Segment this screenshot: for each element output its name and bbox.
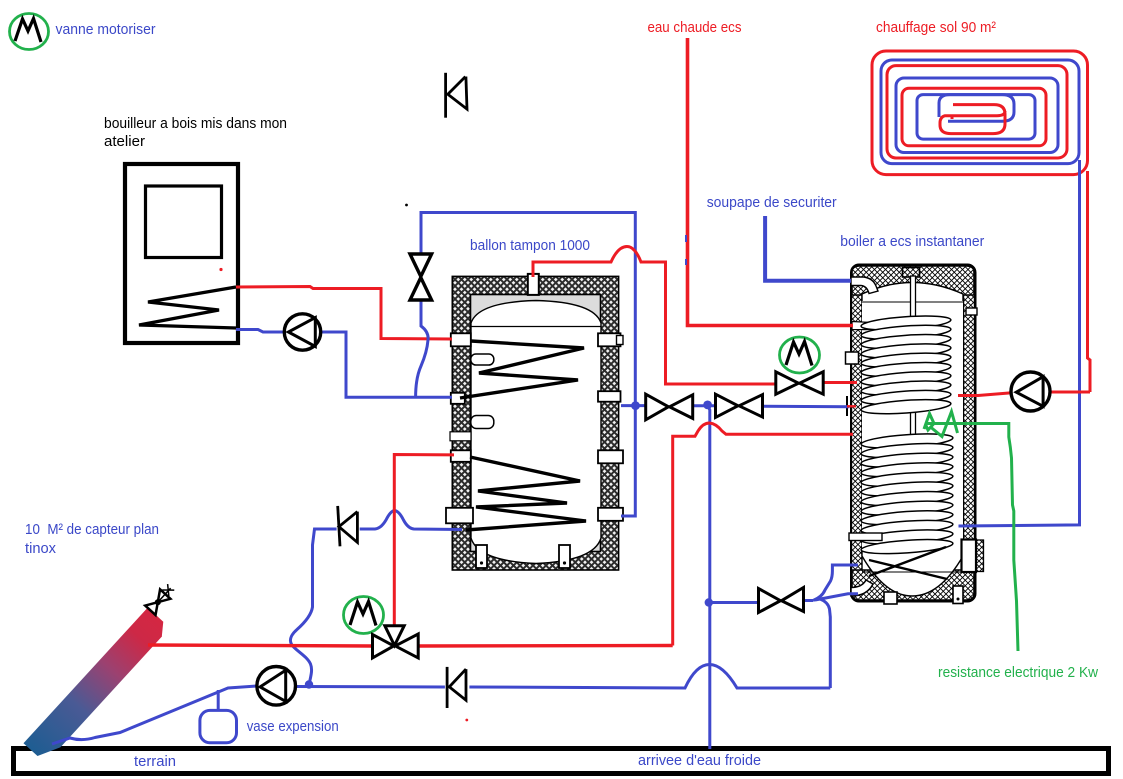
tank T1 weld line (471, 326, 601, 328)
wire: blue valve K4 to pump P2 (296, 685, 445, 689)
tank T1 leg left (476, 545, 487, 568)
tank T1 inner cavity (471, 295, 601, 552)
valve V6 bowtie (red charge line) (776, 372, 823, 394)
tank T1 stub left bottom flange (446, 508, 473, 524)
svg-text:chauffage sol 90 m²: chauffage sol 90 m² (876, 19, 996, 36)
junction J1 dot (631, 401, 640, 410)
tank T2 outer shell (851, 265, 976, 602)
floor loop blue ring 3 (917, 95, 1035, 140)
tank T1 lower coil zigzag (466, 457, 586, 530)
tank T1 stub left hot-in (wood boiler) (451, 333, 471, 346)
tank T2 small stub left (846, 352, 859, 364)
wire: blue vase expansion stub (217, 690, 220, 711)
WOOD BOILER (125, 164, 238, 343)
floor loop blue ring 1 (881, 60, 1079, 164)
wire: red pump P3 to floor riser (1049, 391, 1090, 394)
wire: red eau chaude ecs drop (688, 38, 854, 326)
tank T2 top dome (862, 283, 963, 303)
wire: blue J3 to valve V5 (710, 601, 759, 604)
FLOOR HEATING (872, 51, 1090, 526)
wire: red 3way valve top branch to tank1 (394, 455, 454, 627)
tank T2 weld line top (862, 301, 963, 303)
tank T1 sensor pocket upper (471, 354, 494, 365)
floor loop blue inner end (939, 95, 1014, 122)
tank T1 upper coil zigzag (460, 341, 584, 398)
motorized valve legend symbol (10, 14, 49, 50)
ground bar (14, 749, 1109, 774)
wire: red collector supply main (148, 645, 373, 646)
tank T1 insulation frame (452, 276, 618, 570)
valve V-top vertical bowtie (410, 254, 432, 300)
wire: green resistance line (925, 424, 1018, 652)
tank T2 bottom coil zigzag (869, 547, 947, 579)
wire: blue cold water main drop (708, 405, 710, 749)
wire: blue wiggle from J4 up to valve K3 (290, 529, 336, 685)
tank T2 upper coil (861, 314, 952, 417)
tank T1 stub right bottom (598, 508, 623, 521)
wire: blue X junction up to tank2 stub565 (813, 565, 858, 601)
pump P1 (wood boiler) (284, 314, 320, 350)
svg-text:arrivee d'eau froide: arrivee d'eau froide (638, 752, 761, 769)
tank T2 leg left (884, 592, 897, 604)
wire: blue between valves V1 V2 (693, 404, 716, 407)
wire: blue X junction down leg (820, 599, 830, 688)
TANK2 boiler ecs (846, 265, 984, 605)
wire: red riser to tank2 solar coil with bump (673, 423, 853, 646)
valve V2 bowtie (716, 394, 763, 417)
wire: green element scribble (924, 412, 958, 437)
tank T1 stub left solar-in (451, 450, 471, 462)
svg-text:vanne motoriser: vanne motoriser (56, 21, 156, 38)
svg-text:eau chaude ecs: eau chaude ecs (648, 19, 742, 36)
svg-text:terrain: terrain (134, 753, 176, 770)
tank T1 vessel body (471, 301, 601, 564)
stray dot artifact top (405, 204, 408, 207)
wire: blue X junction to tank2 bottom entry (815, 594, 858, 600)
svg-text:boiler a ecs instantaner: boiler a ecs instantaner (840, 233, 984, 250)
tank T2 body interior (862, 301, 963, 549)
wire: blue tick artifacts on red drop (685, 235, 687, 265)
vase expansion vessel (200, 710, 237, 742)
svg-text:soupape de securiter: soupape de securiter (707, 194, 837, 211)
stray red dot artifact (219, 268, 222, 271)
floor loop blue ring 2 (896, 78, 1058, 153)
wire: red valve V6 to tank2 (822, 381, 857, 384)
wire: blue down from J1 to tank1 lower-right stub (621, 406, 635, 516)
wire: red riser floor-heating supply (1088, 171, 1091, 392)
tank T2 lower coil (861, 432, 954, 557)
svg-text:vase expension: vase expension (247, 718, 339, 735)
wire: blue bottom horizontal to valve K4 (469, 665, 830, 689)
svg-text:ballon tampon 1000: ballon tampon 1000 (470, 237, 590, 254)
check valve K3 (solar return) (338, 506, 358, 546)
svg-text:tinox: tinox (25, 540, 56, 557)
tank T1 leg right (559, 545, 570, 568)
wire: blue soupape de securiter (765, 216, 851, 281)
wire: blue wood-boiler return (boiler to pump P1) (236, 330, 285, 333)
tank T2 bottom dome (862, 548, 963, 596)
wire: red tick at tank2 blue entry (847, 405, 856, 407)
svg-text:bouilleur a bois mis dans mon: bouilleur a bois mis dans mon (104, 115, 287, 132)
solar collector panel (23, 608, 169, 764)
pump P2 (solar) (257, 667, 296, 706)
wood boiler body (125, 164, 238, 343)
wire: blue pump P1 outlet to tank1 mid stub (320, 332, 452, 397)
wire: red wood-boiler supply to tank1 (236, 287, 452, 340)
floor loop red ring 3 (902, 88, 1046, 146)
tank T1 small notch left (450, 432, 471, 441)
wire: red tank2 to pump P3 (958, 393, 1012, 396)
valve V1 bowtie (646, 394, 693, 420)
junction J3 dot (705, 598, 713, 606)
tank T2 bottom-left elbow (851, 580, 873, 596)
tank T1 stub right mid (598, 391, 621, 402)
tank T2 internal pipe (911, 276, 916, 437)
tank T2 small fitting right (966, 308, 977, 315)
svg-text:resistance electrique 2 Kw: resistance electrique 2 Kw (938, 664, 1098, 681)
valve V5 bowtie (cold feed) (759, 588, 804, 613)
tank T1 sensor pocket lower (471, 416, 494, 429)
floor loop red ring 1 (872, 51, 1088, 175)
tank T2 entry tick mark (846, 396, 848, 416)
wire: blue riser to thermic valve (421, 213, 635, 406)
check valve K1 (floating) (446, 73, 467, 118)
tank T1 stub right upper (598, 333, 621, 346)
tank T2 leg right (953, 586, 963, 604)
TERRAIN (14, 749, 1109, 774)
svg-text:10 M² de capteur plan: 10 M² de capteur plan (25, 521, 159, 538)
tank T1 stub left return mid (451, 393, 465, 404)
motorized valve M3 (boiler charge) (780, 337, 820, 373)
floor loop red ring 2 (887, 66, 1067, 158)
svg-text:atelier: atelier (104, 133, 145, 150)
wire: blue tank1 right stub to junction J1 (621, 404, 646, 407)
wire: red 3way valve to riser corner (418, 644, 673, 648)
tank T2 insulation right wall (964, 270, 975, 596)
tank T2 electric element flange (962, 540, 977, 573)
tank T2 inlet elbow top-left (851, 277, 878, 294)
wire: blue valve K3 to tank1 bottom stub with bump (360, 511, 462, 530)
wire: blue valve V5 to X junction (804, 599, 814, 602)
pump P3 (floor heating) (1011, 372, 1050, 411)
junction J4 dot (305, 680, 313, 688)
junction J2 dot (703, 401, 712, 410)
check valve K4 (bottom loop) (447, 667, 466, 708)
wire: blue valve V2 to tank2 left (763, 405, 850, 409)
wire: blue thermic valve down wiggle (416, 300, 429, 397)
tank T1 stub right lower-mid (598, 450, 623, 463)
tank T2 insulation left wall (852, 270, 863, 596)
floor loop red inner end (940, 105, 1005, 134)
wood boiler heat exchanger zigzag (139, 287, 236, 328)
tank T2 insulation bottom cap (852, 570, 974, 600)
wire: blue floor-heating return riser (959, 160, 1080, 526)
collector air-vent valve (145, 583, 176, 615)
tank T2 coil nozzle mid-left (849, 533, 882, 541)
wood boiler door (146, 186, 222, 258)
valve V7 3-way mixing valve (373, 626, 419, 658)
motorized valve M2 (solar 3-way) (344, 597, 384, 634)
COLLECTOR (23, 583, 176, 764)
wire: red tank1 top to boiler-ecs valve branch (533, 247, 777, 385)
wire: blue pump P2 inlet from collector (52, 686, 257, 744)
tank T1 top nozzle (528, 274, 539, 295)
tank T2 weld line bottom (862, 571, 963, 573)
TANK1 ballon tampon (446, 274, 623, 570)
tank T2 hot water outlet pipe (852, 322, 940, 331)
tank T2 top fitting (903, 268, 920, 278)
tank T2 insulation top cap (852, 266, 974, 295)
